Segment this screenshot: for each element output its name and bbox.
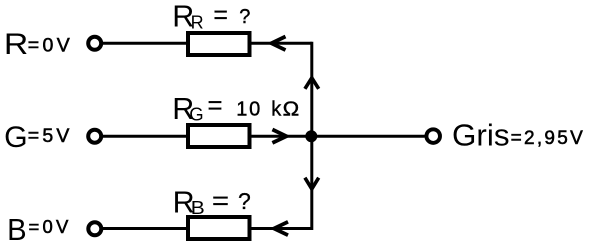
svg-text:=: = xyxy=(208,90,223,120)
current arrow right on G branch xyxy=(272,130,286,143)
svg-text:B: B xyxy=(7,213,27,247)
label R=0V xyxy=(4,28,73,61)
svg-text:R: R xyxy=(191,12,204,33)
svg-text:10: 10 xyxy=(236,99,262,121)
terminal G xyxy=(88,130,101,143)
terminal R xyxy=(88,37,101,50)
current arrow left on B branch xyxy=(274,222,288,235)
svg-text:=0V: =0V xyxy=(28,35,73,57)
wire top R branch xyxy=(103,42,312,45)
resistor RR xyxy=(188,33,250,55)
label B=0V xyxy=(7,213,71,247)
svg-text:R: R xyxy=(4,28,28,61)
label Gris=2,95V xyxy=(452,118,585,153)
label RG = 10 kOhm xyxy=(172,90,299,126)
terminal B xyxy=(88,222,101,235)
svg-text:=0V: =0V xyxy=(29,216,72,237)
svg-text:G: G xyxy=(189,103,203,124)
svg-text:B: B xyxy=(191,197,205,218)
svg-text:Gris: Gris xyxy=(452,118,510,153)
current arrow left on R branch xyxy=(271,37,285,51)
svg-text:k: k xyxy=(271,99,282,121)
resistor RB xyxy=(188,217,250,239)
svg-text:?: ? xyxy=(239,6,250,28)
svg-text:?: ? xyxy=(238,188,251,214)
terminal Gris xyxy=(426,129,440,143)
label RR = ? xyxy=(172,0,250,34)
wire bottom B branch xyxy=(103,227,312,230)
svg-text:Ω: Ω xyxy=(283,99,300,121)
wire output to Gris xyxy=(312,135,425,138)
svg-text:=2,95V: =2,95V xyxy=(511,128,586,149)
label RB = ? xyxy=(173,185,251,219)
svg-text:=: = xyxy=(213,0,228,30)
label G=5V xyxy=(4,121,72,154)
svg-text:=5V: =5V xyxy=(28,125,73,147)
wire middle G branch xyxy=(103,135,312,138)
resistor RG xyxy=(188,125,250,147)
current arrow up on bus xyxy=(305,78,319,89)
wire vertical bus xyxy=(310,42,313,230)
junction node xyxy=(305,130,317,142)
svg-text:G: G xyxy=(4,121,28,154)
current arrow down on bus xyxy=(305,178,319,189)
svg-text:=: = xyxy=(212,186,229,216)
